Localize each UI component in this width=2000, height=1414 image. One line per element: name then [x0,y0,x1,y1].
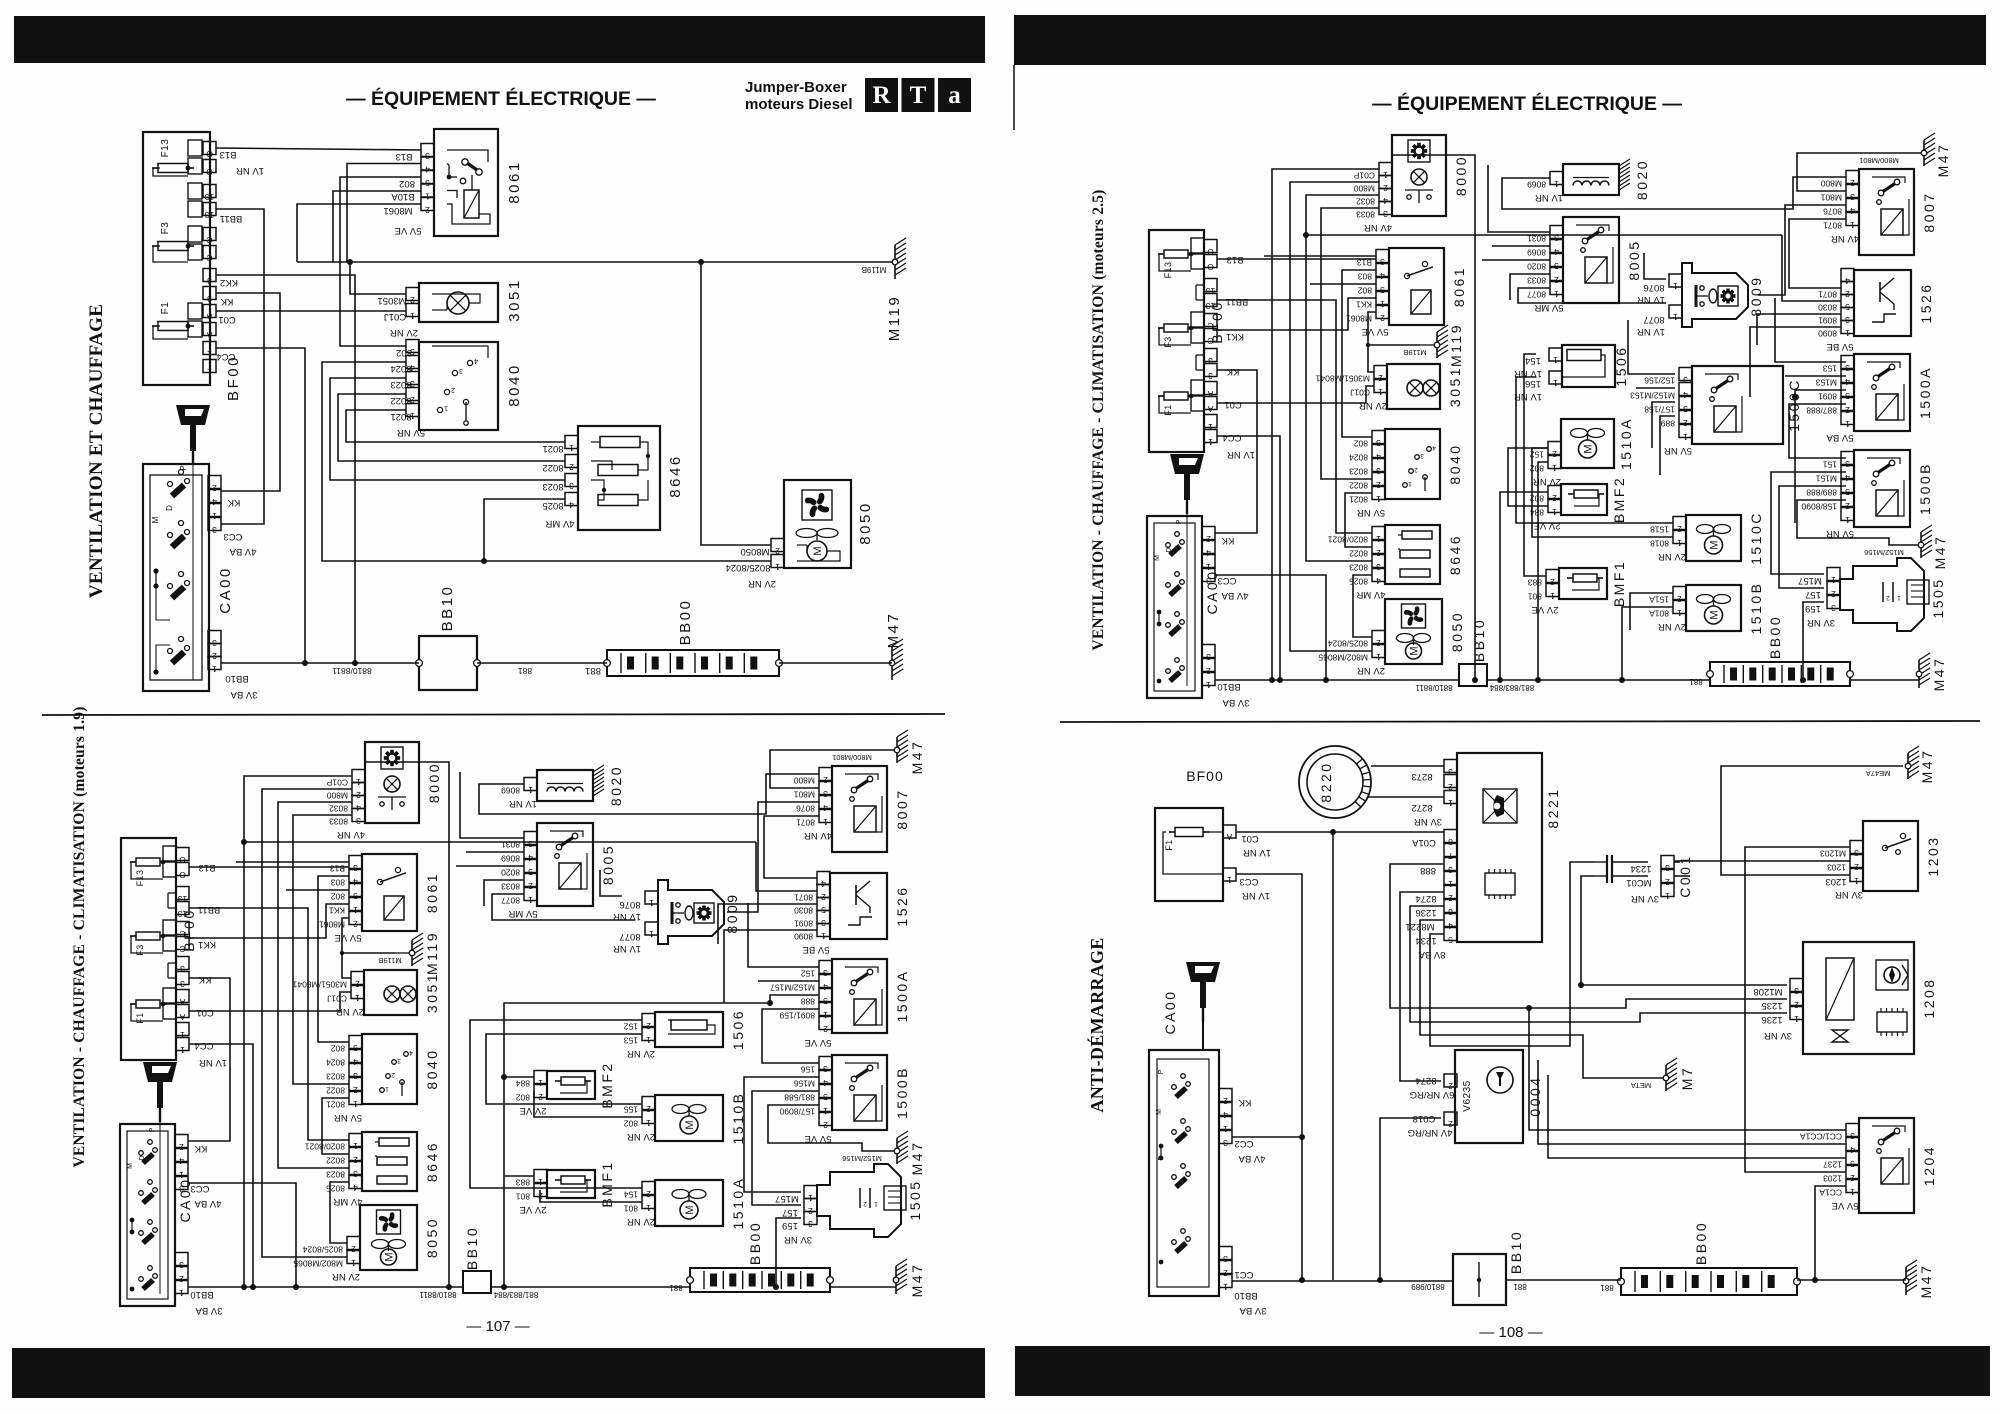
relay 8020 (1.9) [537,770,593,801]
ignition switch CA00 [143,464,209,691]
svg-text:1: 1 [385,1085,389,1092]
svg-text:KK: KK [194,1143,207,1154]
svg-text:881: 881 [1600,1283,1614,1292]
svg-text:8069: 8069 [1527,248,1546,258]
svg-text:KK2: KK2 [220,277,238,288]
svg-text:BB10: BB10 [1471,618,1487,662]
svg-text:B13: B13 [396,151,413,162]
junction box BB10 [419,636,477,690]
8221 interior icons [1483,789,1517,823]
svg-text:1: 1 [1845,419,1850,429]
svg-text:3V BA: 3V BA [1239,1305,1267,1316]
svg-text:CC3: CC3 [1239,876,1258,887]
pins 8050 [771,539,784,552]
svg-text:F13: F13 [160,139,171,158]
svg-text:2: 2 [425,205,430,215]
svg-text:M119: M119 [424,931,440,975]
svg-text:BB10: BB10 [225,673,248,684]
wire 8007 to M47 (1.9) [770,750,894,788]
svg-text:8021: 8021 [326,1100,345,1110]
svg-text:1: 1 [1665,891,1670,901]
svg-text:1: 1 [212,664,217,674]
svg-text:C01J: C01J [327,994,347,1004]
svg-text:1: 1 [823,817,828,827]
fuse F3 [158,242,188,251]
svg-text:2V NR: 2V NR [1658,551,1686,562]
capacitors C001 [1661,856,1674,869]
svg-text:F3: F3 [160,222,171,235]
svg-text:1: 1 [353,905,358,915]
svg-text:A: A [179,1012,185,1022]
svg-text:2: 2 [391,1071,395,1078]
svg-text:3: 3 [1208,371,1213,381]
svg-text:8V BA: 8V BA [1418,949,1446,960]
svg-text:1: 1 [649,929,654,939]
connector pins BF00 [203,142,216,155]
svg-text:153: 153 [1823,364,1837,374]
svg-text:M800: M800 [326,791,348,801]
wire B13 to 8061 (1.9) [189,866,349,868]
svg-text:8810/989: 8810/989 [1411,1282,1445,1291]
svg-text:P: P [1176,519,1183,524]
svg-text:5V BE: 5V BE [1827,341,1854,352]
svg-text:1: 1 [874,1200,878,1207]
svg-text:8220: 8220 [1318,761,1334,802]
svg-text:1518: 1518 [1650,525,1669,535]
wire 8221 pin 888 (AD) [1390,864,1787,1008]
pins 8646 [565,436,578,449]
svg-text:8090: 8090 [794,932,813,942]
wire 1500C feeds (2.5) [1628,320,1675,374]
svg-text:1234: 1234 [1630,863,1651,874]
module 8009 (2.5) [1682,263,1748,327]
svg-text:2: 2 [1677,524,1682,534]
svg-text:8076: 8076 [796,804,815,814]
fuse BMF1 (2.5) [1559,568,1607,599]
svg-text:8810/8811: 8810/8811 [419,1290,457,1299]
wire 8274 link 8221-0004 (AD) [1400,892,1444,1081]
svg-text:2: 2 [1223,1268,1228,1278]
CA00 contacts [192,462,194,680]
svg-text:881: 881 [585,665,601,676]
svg-text:5V NR: 5V NR [397,427,425,438]
bottom black banner right page [1015,1346,1990,1396]
svg-text:1526: 1526 [1918,282,1934,323]
svg-text:CC3: CC3 [223,531,242,542]
svg-text:F1: F1 [1164,839,1174,850]
svg-text:CC1: CC1 [1234,1269,1253,1280]
svg-text:1: 1 [823,1010,828,1020]
svg-text:CC1/CC1A: CC1/CC1A [1800,1132,1842,1142]
connector pins CA00 bottom [208,631,221,644]
svg-text:8024: 8024 [1349,453,1368,463]
svg-text:8033: 8033 [1527,276,1546,286]
svg-text:8020: 8020 [608,765,624,806]
svg-text:8005: 8005 [1626,239,1642,280]
svg-text:8025: 8025 [542,500,563,511]
svg-text:3: 3 [1206,652,1211,662]
svg-text:152/156: 152/156 [1644,376,1675,386]
svg-text:13: 13 [205,192,215,202]
svg-text:4: 4 [353,1183,358,1193]
svg-text:6: 6 [1448,907,1453,917]
svg-text:13: 13 [205,210,215,220]
svg-text:8050: 8050 [1449,611,1465,652]
svg-text:3: 3 [569,481,574,491]
svg-text:D: D [165,505,174,511]
svg-text:5V NR: 5V NR [1664,445,1692,456]
svg-text:1234: 1234 [1415,935,1436,946]
ground M47 mid (1.9) [897,1131,908,1164]
svg-text:1506: 1506 [730,1009,746,1050]
module 1505 (2.5) [1840,558,1924,631]
svg-text:3051: 3051 [1447,366,1463,407]
svg-text:8646: 8646 [667,454,684,497]
svg-text:3051: 3051 [424,972,440,1013]
svg-text:5: 5 [1845,391,1850,401]
wire CC3 link [216,209,264,524]
wire C001 to 1203 (AD) [1674,861,1680,863]
svg-text:8030: 8030 [1818,303,1837,313]
svg-text:2: 2 [1550,577,1555,587]
wire KK2 bus [216,275,355,663]
svg-text:2V NR: 2V NR [332,1271,360,1282]
svg-text:1: 1 [1206,680,1211,690]
wire 3051 M3051 (2.5) [1368,345,1420,372]
svg-text:802: 802 [331,892,345,902]
svg-text:802: 802 [624,1119,638,1129]
bottom bus (2.5) [1215,679,1459,681]
wire M8061 to ground line [297,204,421,262]
svg-text:CC4: CC4 [194,1040,213,1051]
wire CC3 bus (AD) [1236,874,1302,1280]
svg-text:2: 2 [353,1085,358,1095]
svg-text:8091/159: 8091/159 [779,1011,815,1021]
svg-text:4V BA: 4V BA [1238,1153,1266,1164]
8061 interior [447,150,488,162]
svg-text:1203: 1203 [1823,1174,1842,1184]
svg-text:8023: 8023 [326,1072,345,1082]
svg-text:5: 5 [425,178,430,188]
wire 8061 feeds (2.5) [1264,255,1376,257]
fan 1510A (1.9) [655,1180,723,1226]
svg-text:1510B: 1510B [1748,582,1764,635]
svg-text:BB10: BB10 [1217,681,1240,692]
svg-text:1: 1 [180,1030,185,1040]
svg-text:2: 2 [1552,449,1557,459]
blower motor 8050 (1.9) [360,1205,417,1270]
pins 3051 [406,288,419,301]
svg-text:5: 5 [1448,935,1453,945]
svg-text:8020: 8020 [501,868,520,878]
wire CC2 (AD) [1232,1136,1302,1138]
svg-text:D: D [1158,1155,1165,1160]
module 1505 (1.9) [817,1164,901,1237]
wire 8009 to 8007 link (2.5) [1758,205,1846,295]
svg-text:BF00: BF00 [1209,300,1225,343]
bus BB10 to BB00 [477,662,607,664]
ground M47 bottom (2.5) [1919,653,1930,688]
svg-text:1: 1 [1227,875,1232,885]
relay 1500B (1.9) [832,1055,887,1130]
svg-text:4: 4 [353,1057,358,1067]
svg-text:3: 3 [180,979,185,989]
svg-text:M801: M801 [793,790,815,800]
wire 1506/1510 feeds (2.5) [1524,354,1546,576]
svg-text:1: 1 [1550,591,1555,601]
svg-text:1: 1 [528,895,533,905]
fuse box BF00 (2.5) [1149,230,1204,452]
svg-text:1: 1 [1673,281,1678,291]
wire 1506/1510 feeds (1.9) [470,1020,642,1188]
svg-text:M: M [1709,610,1721,619]
svg-text:M119: M119 [886,295,903,341]
svg-text:3: 3 [212,525,217,535]
svg-text:8076: 8076 [1823,207,1842,217]
svg-text:1: 1 [1376,494,1381,504]
svg-text:3: 3 [1854,848,1859,858]
svg-text:1: 1 [1683,432,1688,442]
wire 8009 to 8007 link (1.9) [727,802,819,912]
svg-text:M: M [1583,444,1595,453]
svg-text:8023: 8023 [390,379,411,390]
svg-text:3: 3 [808,1219,813,1229]
svg-text:1204: 1204 [1921,1145,1937,1186]
svg-text:881/883/884: 881/883/884 [493,1290,538,1299]
svg-text:2: 2 [1378,373,1383,383]
svg-text:2V NR: 2V NR [627,1216,655,1227]
svg-text:M: M [1409,646,1421,655]
svg-text:3: 3 [179,1260,184,1270]
svg-text:8077: 8077 [619,931,640,942]
svg-text:M: M [812,546,824,555]
svg-text:4V BA: 4V BA [194,1198,222,1209]
svg-text:2V NR: 2V NR [627,1131,655,1142]
svg-text:2V VE: 2V VE [520,1105,547,1116]
svg-text:2V NR: 2V NR [748,578,776,589]
svg-text:D: D [139,1155,146,1160]
svg-text:8033: 8033 [501,882,520,892]
wire B10A [333,191,421,262]
wire 8009 pins (2.5) [1644,253,1666,279]
svg-text:8022: 8022 [542,462,563,473]
wire 1526 feeds (1.9) [244,841,756,843]
3051 interior lamp [447,292,469,314]
svg-text:F1: F1 [160,302,171,315]
resistor pack 8646 (1.9) [362,1132,417,1191]
svg-text:8033: 8033 [329,817,348,827]
control panel 8000 (1.9) [365,742,419,823]
bus vertical x1475 (2.5) [1391,155,1475,680]
svg-text:889: 889 [1661,419,1675,429]
transponder ring 8220 [1299,746,1371,818]
8050 propeller and motor [796,529,838,538]
svg-text:1: 1 [1554,179,1559,189]
wire 1526 feeds (2.5) [1306,234,1782,236]
svg-text:8018: 8018 [1650,539,1669,549]
svg-text:M1203: M1203 [1820,849,1846,859]
svg-text:2: 2 [646,1021,651,1031]
battery link BB00 [607,650,779,676]
svg-text:1: 1 [1448,879,1453,889]
svg-text:— ÉQUIPEMENT ÉLECTRIQUE —: — ÉQUIPEMENT ÉLECTRIQUE — [346,87,656,110]
svg-text:5V VE: 5V VE [395,225,422,236]
pins 8040 [406,340,419,353]
lamp unit 3051 [419,283,498,322]
wire M8221 (AD) [1420,920,1663,1078]
svg-text:1203: 1203 [1827,863,1846,873]
svg-text:1203: 1203 [1925,835,1941,876]
svg-text:151A: 151A [1649,595,1669,605]
svg-text:3: 3 [1420,452,1424,459]
blower switch 8040 [419,342,498,430]
svg-text:8071: 8071 [796,818,815,828]
svg-text:moteurs Diesel: moteurs Diesel [745,96,853,113]
svg-text:8023: 8023 [326,1170,345,1180]
ground M7 [1666,1058,1677,1091]
svg-text:1500A: 1500A [894,970,910,1023]
wire 3051 M3051 (1.9) [342,953,395,978]
svg-text:803: 803 [1358,272,1372,282]
svg-text:BB11: BB11 [1226,296,1249,307]
svg-text:8091: 8091 [794,919,813,929]
svg-text:2: 2 [1223,1096,1228,1106]
svg-text:1500A: 1500A [1917,366,1933,419]
svg-text:8077: 8077 [501,896,520,906]
svg-text:8000: 8000 [426,762,442,803]
svg-text:8069: 8069 [501,786,520,796]
svg-text:C01P: C01P [1353,171,1375,181]
svg-text:M119B: M119B [1403,348,1426,357]
connector pins CA00 top [208,476,221,489]
svg-text:8090: 8090 [1818,329,1837,339]
fuse box BF00 [143,132,210,385]
svg-text:3: 3 [353,863,358,873]
svg-text:2V NR: 2V NR [627,1048,655,1059]
svg-text:5: 5 [353,891,358,901]
svg-text:4: 4 [1683,390,1688,400]
svg-text:1: 1 [1448,798,1453,808]
svg-text:8025: 8025 [1349,577,1368,587]
blower switch 8040 (1.9) [362,1034,417,1104]
svg-text:8021: 8021 [542,443,563,454]
wire 8023 loop [330,378,565,480]
wire C01 to C01J [216,310,406,312]
svg-text:5V NR: 5V NR [334,1112,362,1123]
svg-text:2: 2 [823,775,828,785]
ground M47 [892,639,903,680]
svg-text:KK: KK [198,974,211,985]
svg-text:1: 1 [1553,378,1558,388]
svg-text:8076: 8076 [1643,282,1664,293]
wire M47 to 1203 (AD) [1721,766,1903,875]
svg-text:M1208: M1208 [1753,986,1782,997]
svg-text:156: 156 [801,1065,815,1075]
svg-text:2: 2 [212,483,217,493]
svg-text:8020: 8020 [1527,262,1546,272]
svg-text:O: O [179,870,186,880]
ignition key symbol [176,405,210,425]
svg-text:8050: 8050 [424,1217,440,1258]
svg-text:1: 1 [649,898,654,908]
ground M47 mid (2.5) [1921,525,1932,558]
svg-text:1: 1 [1206,562,1211,572]
ground M47 (AD bottom) [1906,1260,1917,1295]
svg-text:3: 3 [1845,363,1850,373]
svg-text:3V BA: 3V BA [1222,697,1250,708]
ground M119 (2.5) [1437,325,1448,358]
svg-text:8007: 8007 [1921,191,1937,232]
svg-text:8022: 8022 [1349,549,1368,559]
svg-text:1: 1 [1376,652,1381,662]
wire to 8050 pin2 [701,262,771,545]
svg-text:CC3: CC3 [190,1183,209,1194]
svg-text:6V NR/RG: 6V NR/RG [1410,1089,1455,1100]
svg-text:4: 4 [569,500,574,510]
svg-text:2: 2 [1845,501,1850,511]
svg-text:3: 3 [179,1184,184,1194]
svg-text:2: 2 [1380,313,1385,323]
svg-text:1505: 1505 [907,1179,923,1220]
svg-text:8023: 8023 [1349,467,1368,477]
wire 8024 long bus [322,362,771,561]
svg-text:8274: 8274 [1415,893,1436,904]
svg-text:8030: 8030 [794,906,813,916]
svg-text:M157: M157 [775,1193,799,1204]
wire 8025 to 8050 [484,499,565,561]
svg-text:3: 3 [823,789,828,799]
svg-text:CA00: CA00 [217,566,234,614]
svg-text:5V VE: 5V VE [1832,1200,1859,1211]
svg-text:3: 3 [353,1071,358,1081]
svg-text:802: 802 [331,1044,345,1054]
svg-text:1: 1 [775,562,780,572]
svg-text:1: 1 [1673,312,1678,322]
svg-text:4V MR: 4V MR [545,518,574,529]
wire 8020 feed (2.5) [1502,177,1846,209]
svg-text:C01A: C01A [1411,837,1435,848]
svg-text:2: 2 [1376,638,1381,648]
svg-text:1236: 1236 [1415,907,1436,918]
svg-text:2: 2 [353,1155,358,1165]
svg-text:1: 1 [1845,515,1850,525]
svg-text:B10A: B10A [391,191,415,202]
svg-text:3V NR: 3V NR [1807,617,1835,628]
svg-text:P: P [1158,1069,1165,1074]
svg-text:1V NR: 1V NR [199,1057,227,1068]
svg-text:4V MR: 4V MR [1356,589,1385,600]
svg-text:4: 4 [823,803,828,813]
wire BB11 (1.9) [189,908,349,1140]
wire 0004 C018 (AD) [1380,1118,1441,1280]
svg-text:3: 3 [1223,1254,1228,1264]
svg-text:2: 2 [1665,877,1670,887]
svg-text:C01P: C01P [326,778,348,788]
fuse box BF00 (1.9) [121,838,176,1060]
svg-text:5: 5 [823,996,828,1006]
svg-text:4: 4 [823,982,828,992]
svg-text:BB10: BB10 [1234,1290,1257,1301]
resistor 1506 (1.9) [655,1012,723,1047]
svg-text:1: 1 [1223,1124,1228,1134]
svg-text:1: 1 [1854,876,1859,886]
svg-text:3: 3 [459,367,463,374]
svg-text:C01: C01 [1241,833,1258,844]
svg-text:M47: M47 [1935,143,1951,178]
svg-text:3V NR: 3V NR [784,1234,812,1245]
svg-text:802: 802 [396,347,412,358]
wire 8021 loop [346,410,565,442]
